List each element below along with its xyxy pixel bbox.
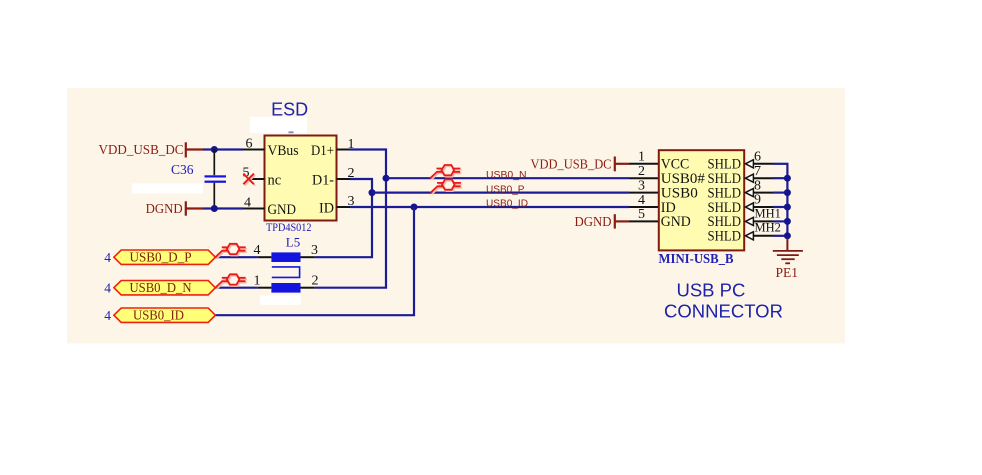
port USB0_D_N: [114, 281, 215, 297]
svg-text:nc: nc: [268, 172, 282, 188]
svg-text:2: 2: [638, 164, 645, 179]
capacitor C36: [171, 150, 226, 209]
svg-text:3: 3: [638, 178, 645, 193]
wire USB0_ID net: [350, 206, 629, 208]
wire shield 8: [754, 192, 788, 194]
port DGND left: [146, 201, 203, 216]
wire ID pin3 stub: [337, 206, 351, 208]
shield pin arrow MH1: [745, 217, 753, 225]
diff-pair marker at USB0_D_P: [215, 244, 247, 259]
wire L5 pin4 stub: [258, 256, 272, 258]
port VDD_USB_DC left: [99, 142, 204, 158]
svg-text:2: 2: [312, 273, 319, 288]
diff-pair marker on USB0_P: [431, 179, 463, 194]
shield pin arrow 9: [745, 203, 753, 211]
svg-text:USB0_ID: USB0_ID: [133, 309, 184, 324]
wire VDD_USB_DC net: [203, 148, 243, 150]
port USB0_D_P: [114, 250, 215, 266]
wire USB0_ID down to port: [215, 207, 414, 315]
junction at C36 bottom: [211, 205, 218, 212]
shield pin arrow 6: [745, 160, 753, 168]
wire pin4 stub: [243, 208, 265, 210]
port DGND right: [575, 214, 630, 229]
title USB PC CONNECTOR: [664, 279, 783, 321]
wire D1+ pin1 stub: [337, 149, 351, 151]
svg-text:VDD_USB_DC: VDD_USB_DC: [99, 142, 184, 157]
wire pin5 nc stub: [247, 178, 265, 180]
wire USB0_D_N to L5: [215, 287, 257, 289]
junction at C36 top: [211, 146, 218, 153]
wire D1- pin2 stub: [337, 178, 351, 180]
svg-text:4: 4: [104, 250, 111, 265]
ground PE1: [773, 251, 803, 263]
svg-text:MH2: MH2: [755, 221, 781, 235]
junction shield 9: [784, 204, 791, 211]
svg-text:DGND: DGND: [575, 214, 612, 229]
inductor L5 coupling bracket: [272, 267, 300, 278]
svg-text:7: 7: [754, 164, 761, 179]
svg-text:USB PC: USB PC: [676, 279, 745, 300]
svg-text:D1+: D1+: [311, 143, 334, 159]
IC U1 TPD4S012 ESD protection chip: [265, 136, 337, 221]
wire shield 9: [754, 206, 788, 208]
svg-text:DGND: DGND: [146, 201, 183, 216]
wire USB0_P: [372, 192, 629, 194]
junction USB0_N: [383, 175, 390, 182]
svg-text:4: 4: [254, 243, 261, 258]
svg-text:8: 8: [754, 178, 761, 193]
sheet background: [67, 88, 845, 344]
svg-text:MH1: MH1: [755, 206, 781, 220]
svg-text:VDD_USB_DC: VDD_USB_DC: [531, 156, 612, 171]
junction shield 8: [784, 189, 791, 196]
svg-text:USB0_D_P: USB0_D_P: [130, 251, 192, 266]
svg-text:SHLD: SHLD: [708, 229, 742, 245]
junction shield 7: [784, 175, 791, 182]
svg-text:USB0_ID: USB0_ID: [486, 197, 528, 209]
svg-text:ID: ID: [319, 200, 334, 216]
svg-text:D1-: D1-: [312, 172, 334, 188]
svg-text:C36: C36: [171, 162, 194, 177]
svg-text:6: 6: [754, 150, 761, 165]
wire D1+ net down to L5 pin2: [315, 150, 386, 288]
wire L5 pin2 stub: [301, 287, 315, 289]
svg-text:4: 4: [104, 308, 111, 323]
svg-text:ESD: ESD: [271, 99, 308, 119]
svg-text:L5: L5: [286, 235, 300, 250]
svg-text:USB0_P: USB0_P: [486, 183, 525, 195]
svg-text:MINI-USB_B: MINI-USB_B: [659, 251, 734, 266]
wire shield bus vertical: [786, 164, 788, 239]
junction shield MH1: [784, 218, 791, 225]
diff-pair marker on USB0_N: [430, 165, 462, 180]
svg-text:PE1: PE1: [776, 265, 799, 280]
diff-pair marker at USB0_D_N: [215, 274, 247, 289]
junction USB0_P: [369, 189, 376, 196]
shield pin arrow MH2: [745, 232, 753, 240]
svg-text:CONNECTOR: CONNECTOR: [664, 300, 783, 321]
wire ID pin4 stub: [629, 206, 659, 208]
svg-text:1: 1: [638, 150, 645, 165]
port VDD_USB_DC right: [531, 156, 630, 171]
wire VCC pin1 stub: [629, 163, 659, 165]
wire shield 7: [754, 177, 788, 179]
svg-text:4: 4: [638, 193, 645, 208]
svg-text:GND: GND: [268, 202, 297, 218]
junction shield MH2: [784, 232, 791, 239]
no-connect X on pin 5: [243, 174, 255, 186]
wire pin6 stub: [243, 149, 265, 151]
wire L5 pin1 stub: [258, 287, 272, 289]
svg-text:1: 1: [254, 273, 261, 288]
svg-text:5: 5: [638, 207, 645, 222]
wire GND pin5 stub: [629, 220, 659, 222]
wire DGND net: [203, 207, 243, 209]
wire shield MH1: [754, 220, 788, 222]
svg-text:USB0_D_N: USB0_D_N: [130, 281, 192, 296]
wire to earth ground: [786, 239, 788, 251]
wire D1- net down to L5 pin3: [315, 179, 372, 257]
wire shield MH2: [754, 235, 788, 237]
inductor L5 winding A: [271, 252, 300, 262]
wire USB0_N: [386, 177, 629, 179]
svg-text:3: 3: [311, 243, 318, 258]
junction USB0_ID: [411, 204, 418, 211]
shield pin arrow 7: [745, 174, 753, 182]
wire shield 6: [754, 163, 789, 165]
inductor L5 winding B: [271, 283, 300, 293]
svg-text:VBus: VBus: [268, 143, 299, 159]
svg-text:USB0_N: USB0_N: [486, 169, 527, 181]
svg-text:4: 4: [104, 281, 111, 296]
port USB0_ID: [114, 308, 215, 324]
shield pin arrow 8: [745, 189, 753, 197]
wire USB0_D_P to L5: [215, 256, 257, 258]
svg-text:TPD4S012: TPD4S012: [266, 220, 312, 234]
wire USB0# pin2 stub: [629, 177, 659, 179]
wire USB0 pin3 stub: [629, 192, 659, 194]
connector J1 body MINI-USB_B: [659, 150, 744, 250]
svg-text:GND: GND: [661, 214, 691, 230]
wire L5 pin3 stub: [301, 256, 315, 258]
